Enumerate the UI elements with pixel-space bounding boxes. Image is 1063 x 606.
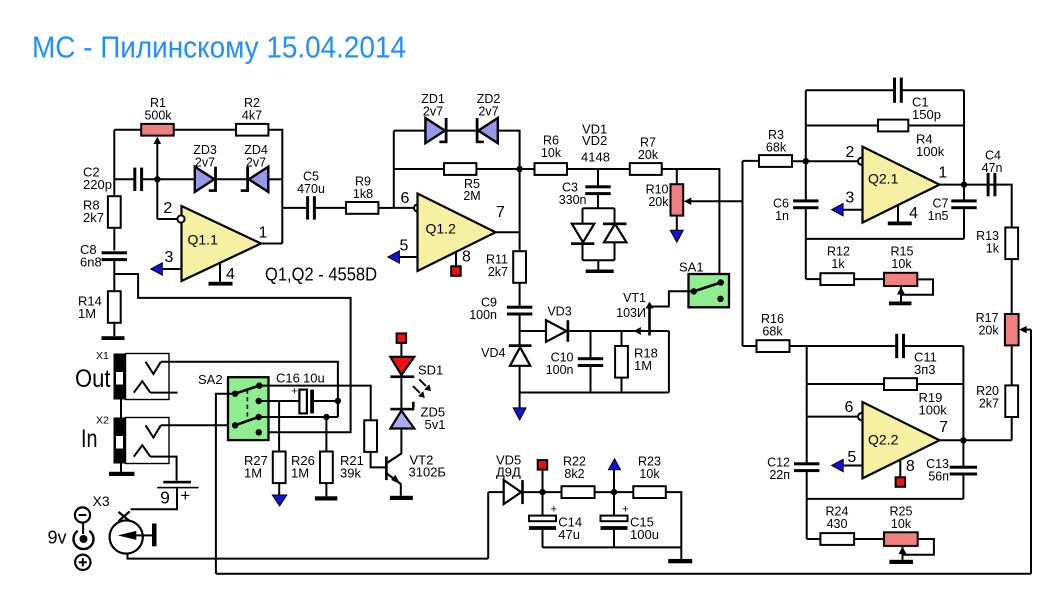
node output Q2.2 (960, 437, 966, 443)
X3 polarity marks (75, 507, 90, 522)
wire C8 junction feedback run to SA2 (114, 274, 350, 432)
svg-text:20k: 20k (638, 148, 659, 162)
svg-text:68k: 68k (762, 325, 783, 339)
wire column to R16 (743, 345, 757, 347)
pin 1 output wire (261, 243, 282, 245)
resistor R2 (236, 124, 268, 136)
transistor VT1 gate step wire (651, 291, 691, 306)
svg-text:C16: C16 (276, 371, 300, 386)
wire VD5 to R22 (524, 491, 562, 493)
wire R13 to R17 (1011, 259, 1013, 314)
wire C6 to rail (805, 209, 807, 239)
switch SA1 (689, 274, 730, 307)
svg-text:SA1: SA1 (679, 260, 704, 275)
svg-text:10k: 10k (639, 467, 660, 481)
power square above SD1 (397, 333, 407, 343)
wire LED to ZD5 (400, 378, 402, 408)
wire ZD1 to ZD2 (448, 130, 476, 132)
svg-text:9v: 9v (48, 528, 67, 548)
svg-text:500k: 500k (144, 109, 172, 123)
R10 bottom arrow (676, 216, 678, 231)
svg-text:1M: 1M (291, 465, 309, 480)
wire R8 to C8 (113, 228, 115, 251)
X2 ring wire to battery (150, 457, 176, 481)
bottom long rail (216, 573, 1031, 575)
X1 ring stub (150, 392, 177, 394)
R24 riser wire (806, 499, 808, 539)
wire R22 to R23 (595, 491, 634, 493)
R25 wiper loop and ground (903, 539, 934, 555)
capacitor C11 (895, 334, 898, 358)
capacitor C15 electrolytic (613, 492, 615, 515)
svg-text:1k: 1k (986, 242, 1000, 256)
SA2 top contact wire to R21 (259, 386, 370, 421)
wire R24 to R25 (854, 538, 884, 540)
svg-text:39k: 39k (340, 465, 361, 480)
R5 feedback row wire (394, 168, 444, 170)
jack X1 (126, 354, 170, 400)
capacitor C1 (893, 78, 896, 103)
svg-text:2M: 2M (463, 189, 480, 203)
C14 C15 bottom rail (543, 546, 682, 548)
R4 row wire (806, 125, 878, 127)
svg-text:6: 6 (844, 399, 853, 416)
diode VD1 down (572, 224, 595, 243)
wire R1 to R2 (174, 129, 236, 131)
resistor R13 (1005, 228, 1018, 260)
pin 5 wire and arrow Q2.2 (832, 459, 844, 471)
svg-text:4: 4 (909, 205, 918, 222)
resistor R6 (535, 163, 568, 175)
LED light arrows (413, 379, 426, 393)
wire column to R3 (758, 160, 760, 162)
wire VD4 down (519, 366, 521, 408)
capacitor C13 (950, 466, 977, 469)
op-amp Q2.2 (863, 402, 940, 478)
wire R7 to SA1 riser (662, 169, 720, 281)
svg-text:2: 2 (845, 144, 854, 161)
svg-text:2v7: 2v7 (246, 156, 266, 170)
resistor R16 (757, 340, 790, 352)
svg-text:X2: X2 (96, 415, 109, 427)
VT2 emitter ground (400, 484, 402, 496)
capacitor C1 row (806, 89, 894, 91)
svg-text:5v1: 5v1 (425, 417, 446, 432)
zener diode ZD2 (478, 118, 498, 143)
left riser Q2.2 box (806, 346, 808, 463)
svg-text:1k8: 1k8 (353, 187, 373, 201)
resistor R20 (1005, 385, 1018, 417)
svg-text:47u: 47u (558, 527, 580, 542)
svg-text:6: 6 (401, 190, 410, 207)
SA2 contact2 wire to C16 (259, 400, 300, 402)
wire square to LED (400, 343, 402, 357)
power square at R22 (538, 460, 548, 470)
R27 column (278, 401, 280, 452)
svg-text:1M: 1M (78, 306, 96, 321)
svg-text:SA2: SA2 (198, 372, 223, 387)
pin 1 output wire Q2.1 (940, 184, 998, 186)
potentiometer R1 (141, 124, 174, 136)
svg-text:8: 8 (906, 458, 915, 475)
svg-text:20k: 20k (648, 195, 669, 209)
SA2 contact3 wire to node (259, 416, 338, 418)
svg-text:3: 3 (845, 189, 854, 206)
svg-text:100n: 100n (546, 363, 574, 377)
wire left column x114 (113, 130, 115, 197)
capacitor C7 (951, 199, 976, 202)
capacitor C4 (987, 173, 990, 196)
capacitor C10 branch (590, 331, 592, 358)
svg-text:430: 430 (827, 517, 848, 531)
wire C14 to rail (542, 530, 544, 548)
wire R3 to pin2 node (792, 160, 858, 162)
svg-text:470u: 470u (297, 182, 325, 196)
left riser of Q2.1 feedback box (805, 90, 807, 199)
svg-text:100n: 100n (469, 308, 497, 322)
pin 7 output wire Q2.2 (940, 439, 1012, 441)
wire R17 to R20 (1011, 345, 1013, 385)
negative rail arrow below VD4 (513, 408, 526, 420)
R17 wiper arrow and riser (1019, 326, 1026, 334)
node at C2/R1 wiper junction (154, 176, 160, 182)
resistor R3 (759, 155, 792, 167)
column under Q1.2 output (519, 169, 521, 251)
wire R2 right to corner (268, 130, 282, 244)
wire C9 to VD4 and VD3 branch (519, 316, 521, 345)
node pin2 Q2.1 (803, 158, 809, 164)
X1 tip wire to C16 node (161, 362, 338, 417)
svg-text:20k: 20k (978, 324, 999, 338)
svg-text:8: 8 (462, 249, 471, 266)
svg-text:Q1.1: Q1.1 (188, 232, 219, 248)
svg-text:VD2: VD2 (582, 133, 607, 148)
bottom rail Q2.2 box (807, 498, 964, 500)
node R5/R6/ZD2 (516, 166, 522, 172)
wire pin6 (394, 207, 414, 209)
svg-text:VD4: VD4 (481, 346, 505, 360)
svg-text:VD3: VD3 (547, 304, 571, 318)
pin 2 wire and circle (157, 218, 177, 220)
svg-text:22п: 22п (769, 468, 790, 482)
svg-text:X3: X3 (93, 493, 110, 509)
svg-text:Q2.1: Q2.1 (868, 171, 899, 187)
svg-text:Д9Д: Д9Д (496, 464, 521, 479)
op-amp Q2.1 (863, 147, 940, 223)
resistor R26 (325, 417, 327, 452)
pin 6 wire and circle Q2.2 (807, 416, 858, 418)
wire output to C5 (282, 207, 306, 209)
svg-text:1M: 1M (634, 358, 652, 373)
wire C8 to R14 (113, 261, 115, 291)
wire ZD3 to ZD4 (217, 178, 246, 180)
svg-text:2k7: 2k7 (488, 265, 508, 279)
R15 wiper loop and ground (901, 279, 933, 294)
resistor R19 (884, 378, 917, 390)
node C15 top (611, 489, 617, 495)
column x394 zd row to pin6 (393, 131, 395, 208)
svg-text:4148: 4148 (581, 150, 610, 165)
svg-text:103И: 103И (616, 306, 646, 320)
bottom rail Q2.1 box (806, 238, 964, 240)
pin 2 circle Q2.1 (858, 158, 865, 165)
svg-text:1n5: 1n5 (928, 209, 949, 223)
wire R20 to output row Q2.2 (1011, 417, 1013, 440)
svg-text:100k: 100k (919, 403, 948, 418)
C16 right wire (314, 400, 338, 402)
svg-text:8k2: 8k2 (564, 467, 584, 481)
right riser of Q2.1 box (963, 90, 965, 199)
svg-text:Q1.2: Q1.2 (426, 221, 457, 237)
zener diode ZD1 (425, 118, 445, 143)
node output Q2.1 (961, 181, 967, 187)
R1 wiper arrow and wire (154, 137, 162, 145)
diode VD4 (509, 344, 532, 347)
resistor R14 (108, 291, 121, 323)
svg-text:5: 5 (400, 238, 409, 255)
zener row left corner wire (394, 130, 425, 132)
svg-text:47n: 47n (982, 161, 1003, 175)
svg-text:9: 9 (160, 488, 170, 508)
svg-text:4: 4 (226, 266, 235, 283)
capacitor C12 (794, 462, 819, 465)
jack X2 (126, 418, 170, 464)
svg-text:X1: X1 (96, 350, 109, 362)
svg-text:10k: 10k (541, 146, 562, 160)
capacitor C16 electrolytic (299, 390, 307, 414)
diode pair VD1 VD2 box (597, 195, 599, 209)
zener diode ZD3 (195, 167, 215, 192)
resistor R8 (108, 196, 121, 228)
svg-text:10k: 10k (891, 257, 912, 271)
pin 3 wire and arrow Q2.1 (832, 204, 844, 216)
pin 4 ground Q2.1 (897, 205, 899, 221)
resistor R27 (273, 452, 286, 484)
op-amp Q1.1 (182, 206, 262, 281)
potentiometer R25 (884, 532, 918, 546)
wire R12 to R15 (854, 278, 884, 280)
svg-text:10u: 10u (303, 371, 325, 386)
svg-text:Q2.2: Q2.2 (868, 432, 899, 448)
capacitor C9 (507, 306, 532, 309)
svg-text:2k7: 2k7 (83, 210, 104, 225)
R27 bottom arrow (278, 483, 280, 495)
svg-text:SD1: SD1 (418, 363, 443, 378)
capacitor C14 electrolytic (542, 492, 544, 515)
LED SD1 (390, 357, 414, 375)
resistor R7 (630, 163, 662, 175)
svg-text:2k7: 2k7 (979, 396, 999, 410)
svg-text:3: 3 (165, 249, 174, 266)
R26 ground (325, 483, 327, 496)
svg-text:In: In (81, 425, 98, 453)
zener diode ZD5 (390, 408, 414, 411)
diode VD3 (546, 320, 567, 342)
capacitor C2 (133, 168, 136, 191)
resistor R22 (562, 486, 595, 498)
VD3 row wire with arrow (569, 330, 669, 332)
svg-text:7: 7 (939, 419, 948, 436)
svg-text:5: 5 (847, 449, 856, 466)
wire C13 to rail (962, 475, 964, 499)
transistor VT1 channel (648, 305, 651, 336)
plug bottom wire (128, 553, 489, 558)
svg-text:330n: 330n (559, 193, 587, 207)
svg-text:1M: 1M (244, 465, 262, 480)
node R26 tap (323, 414, 329, 420)
wire C7 to rail (963, 209, 965, 239)
pin 8 power square (455, 252, 457, 266)
ground under R14 (113, 323, 115, 336)
svg-text:100u: 100u (630, 527, 659, 542)
resistor R5 (444, 163, 476, 175)
resistor R9 (346, 202, 378, 214)
potentiometer R17 (1005, 314, 1019, 345)
R19 row wire (807, 383, 884, 385)
resistor R21 (364, 420, 377, 452)
wire ZD5 to VT2 collector (400, 429, 402, 455)
SA2 upper left wire riser to bottom rail (216, 394, 235, 574)
svg-text:3п3: 3п3 (914, 362, 936, 377)
wire top row to R1 (114, 129, 141, 131)
svg-text:2v7: 2v7 (478, 105, 498, 119)
zener diode ZD4 (249, 167, 268, 192)
resistor R18 branch (621, 331, 623, 346)
switch SA2 (228, 377, 269, 440)
X2 sleeve ground (120, 464, 122, 472)
battery to plug wire (131, 488, 177, 509)
X2 tip wire to SA2 (161, 424, 235, 426)
wire R11 to C9 (519, 283, 521, 306)
pin 7 output wire (496, 231, 520, 233)
wire node to R6 (520, 168, 535, 170)
R21 to VT2 base wire (371, 452, 386, 468)
svg-text:1k: 1k (831, 257, 845, 271)
potentiometer R10 (676, 169, 678, 184)
wire C4 to right column (996, 185, 1011, 227)
wire R9 to pin6 node (378, 207, 393, 209)
svg-text:4k7: 4k7 (242, 109, 262, 123)
sleeve link X1 X2 (120, 400, 122, 418)
resistor R11 (513, 251, 526, 283)
svg-text:1n: 1n (775, 209, 789, 223)
diode VD2 up (603, 223, 627, 226)
potentiometer R15 (884, 273, 917, 286)
svg-text:1: 1 (259, 225, 268, 242)
svg-text:68k: 68k (766, 141, 787, 155)
R10 wiper wire to column (684, 197, 692, 205)
svg-text:+: + (180, 486, 190, 505)
svg-text:1: 1 (938, 165, 947, 182)
svg-text:10k: 10k (891, 517, 912, 531)
pin 4 ground (219, 263, 221, 282)
svg-text:2v7: 2v7 (423, 105, 443, 119)
svg-text:+: + (551, 503, 557, 515)
C11 row wire (790, 345, 896, 347)
svg-text:150p: 150p (912, 107, 941, 122)
svg-text:220p: 220p (83, 177, 112, 192)
svg-text:Out: Out (75, 365, 111, 393)
riser to VD5 (487, 492, 489, 558)
node C16 right (335, 398, 341, 404)
wire R23 to ground riser (666, 492, 682, 559)
R12 riser wire (805, 239, 807, 279)
pin 8 power square Q2.2 (899, 460, 901, 477)
resistor R4 (878, 120, 908, 132)
svg-text:2: 2 (163, 200, 172, 217)
diode VD5 (488, 491, 504, 493)
wire C2 row (114, 178, 133, 180)
wire ZD4 right to column (268, 178, 282, 180)
wire R6 to R7 (567, 168, 630, 170)
wire C15 to rail (613, 530, 615, 548)
capacitor C5 (306, 196, 309, 219)
capacitor C3 branch (597, 169, 599, 186)
svg-text:2v7: 2v7 (195, 156, 215, 170)
pin 3 wire and arrow (151, 263, 163, 275)
svg-text:VT1: VT1 (623, 291, 646, 305)
op-amp Q1.2 (418, 194, 496, 272)
pin 5 wire and arrow (388, 251, 400, 263)
resistor R23 (633, 486, 666, 498)
transistor VT2 (385, 456, 388, 480)
svg-text:Q1,Q2 - 4558D: Q1,Q2 - 4558D (265, 264, 377, 285)
wire C12 to rail (806, 472, 808, 499)
battery (163, 481, 191, 484)
svg-text:6n8: 6n8 (80, 255, 102, 270)
svg-text:3102Б: 3102Б (409, 464, 446, 479)
diode pair bottom and ground (582, 245, 584, 260)
svg-text:+: + (291, 385, 297, 397)
svg-text:+: + (622, 503, 628, 515)
wire R5 to node (476, 168, 519, 170)
svg-text:56п: 56п (928, 469, 949, 483)
up arrow at C15 node (609, 459, 621, 470)
wire C5 to R9 (316, 207, 346, 209)
capacitor C6 (793, 199, 818, 202)
resistor R24 (820, 533, 854, 545)
svg-text:МС - Пилинскому 15.04.2014: МС - Пилинскому 15.04.2014 (32, 30, 406, 65)
node VD4 bottom rail (520, 392, 669, 394)
capacitor C8 (102, 251, 127, 254)
right riser Q2.2 box (962, 346, 964, 466)
wire ZD2 to right column (498, 131, 520, 169)
wire to VD3 (520, 330, 546, 332)
svg-text:100k: 100k (916, 144, 945, 159)
node C14 top (539, 489, 545, 495)
svg-text:7: 7 (496, 204, 505, 221)
signal column x742 (742, 161, 744, 346)
resistor R12 (820, 273, 854, 285)
